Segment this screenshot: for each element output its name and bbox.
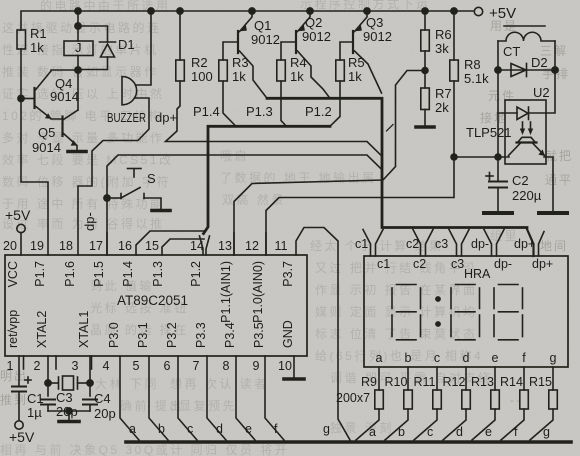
svg-text:R10: R10	[385, 375, 408, 389]
svg-text:dp-: dp-	[82, 212, 97, 231]
transistor Q2	[295, 31, 297, 53]
resistor R15 chain	[552, 367, 554, 390]
svg-text:P1.1(AIN1): P1.1(AIN1)	[219, 261, 233, 323]
svg-text:200x7: 200x7	[336, 391, 370, 405]
wire R8 to TLP node	[453, 81, 455, 157]
wire bus exit to pin 15	[162, 239, 204, 255]
svg-text:P1.4: P1.4	[193, 104, 220, 119]
IC top pin names rotated	[6, 261, 295, 323]
transistor Q5	[61, 117, 63, 137]
svg-text:5.1k: 5.1k	[464, 71, 489, 86]
diode D2	[498, 69, 555, 71]
resistor R10 chain	[407, 367, 409, 390]
svg-text:18: 18	[59, 239, 73, 253]
svg-text:20p: 20p	[56, 404, 78, 419]
pin13 tick	[233, 233, 235, 255]
relay J	[64, 41, 93, 56]
svg-text:c3: c3	[435, 237, 448, 251]
scan artifact dash	[387, 125, 394, 132]
node rail-R6	[422, 8, 428, 14]
svg-text:通平: 通平	[545, 173, 573, 187]
svg-text:P1.3: P1.3	[246, 104, 273, 119]
svg-text:哦启: 哦启	[220, 149, 249, 163]
svg-text:P1.2: P1.2	[305, 104, 332, 119]
wire Q4 collector	[36, 70, 78, 90]
svg-text:13: 13	[218, 239, 232, 253]
node rail-relay	[75, 8, 81, 14]
node relay-D1 bottom	[75, 67, 81, 73]
svg-text:C3: C3	[56, 390, 73, 405]
svg-text:100: 100	[191, 69, 213, 84]
ground R7	[416, 125, 434, 129]
svg-text:C2: C2	[512, 173, 529, 188]
svg-text:a: a	[376, 351, 383, 365]
svg-text:R4: R4	[290, 55, 307, 70]
svg-text:220µ: 220µ	[512, 188, 542, 203]
resistor R4	[277, 60, 286, 81]
wire P3.7 pin11 to g	[296, 228, 350, 441]
node R6-R7 divider	[422, 68, 428, 74]
svg-text:4: 4	[103, 359, 110, 373]
svg-text:TLP521: TLP521	[466, 125, 512, 140]
node R1-Q4 base	[18, 95, 24, 101]
wire divider to AIN1 (P1.1 pin13)	[234, 71, 425, 256]
IC U1 AT89C2051 box	[5, 255, 307, 356]
svg-text:P1.6: P1.6	[63, 261, 77, 287]
wire P3.4 to e	[236, 356, 255, 440]
7seg digit 1	[397, 284, 417, 286]
U2 phototransistor	[517, 141, 537, 143]
svg-text:P3.1: P3.1	[136, 322, 150, 348]
svg-text:a: a	[369, 425, 376, 439]
svg-text:20p: 20p	[94, 406, 116, 421]
svg-text:1µ: 1µ	[27, 405, 42, 420]
svg-text:R14: R14	[500, 375, 523, 389]
wire D1 top branch	[78, 26, 108, 42]
svg-text:3: 3	[72, 359, 79, 373]
svg-text:9: 9	[253, 359, 260, 373]
svg-text:R8: R8	[464, 57, 481, 72]
svg-text:P1.0(AIN0): P1.0(AIN0)	[251, 261, 265, 323]
transistor Q4	[33, 88, 35, 108]
svg-text:P3.4: P3.4	[223, 322, 237, 348]
wire top +5V rail	[21, 11, 474, 30]
svg-text:14: 14	[190, 239, 204, 253]
buzzer body	[122, 77, 137, 105]
wire P3.2 to c	[178, 356, 197, 440]
node rail-Q2	[307, 8, 313, 14]
U2 light arrows	[522, 122, 524, 132]
colon dot upper	[435, 296, 441, 302]
svg-text:ret/vpp: ret/vpp	[6, 310, 20, 348]
svg-text:16: 16	[118, 239, 132, 253]
svg-text:17: 17	[89, 239, 103, 253]
ground switch	[152, 209, 170, 213]
svg-text:Q1: Q1	[254, 18, 271, 33]
svg-text:R15: R15	[529, 375, 552, 389]
7seg digit 2	[456, 284, 476, 286]
node XTAL1	[87, 380, 93, 386]
svg-text:3显复预先: 3显复预先	[170, 399, 237, 413]
wire R6 to R7	[424, 51, 426, 88]
svg-text:P1.7: P1.7	[33, 261, 47, 287]
svg-text:1k: 1k	[232, 69, 246, 84]
wire P3.0 to a	[120, 356, 139, 440]
svg-text:2: 2	[34, 359, 41, 373]
svg-text:U2: U2	[533, 85, 550, 100]
display funnel c2	[413, 230, 421, 257]
svg-text:标志 位清 了告 束莫状态: 标志 位清 了告 束莫状态	[315, 326, 478, 341]
+5V terminal VCC	[17, 224, 25, 232]
resistor R5	[336, 60, 345, 81]
wire P3.5 to f	[265, 356, 284, 440]
svg-text:GND: GND	[281, 320, 295, 348]
svg-text:2k: 2k	[435, 100, 449, 115]
display segment names a-g	[376, 351, 557, 365]
wire U2 emitter to ground	[544, 157, 553, 211]
node switch-P1.5	[104, 195, 110, 201]
node rail-R2	[177, 8, 183, 14]
wire bus exit to pin 16	[136, 231, 205, 255]
svg-text:9012: 9012	[363, 29, 392, 44]
svg-text:R9: R9	[361, 375, 377, 389]
svg-text:dp-: dp-	[471, 237, 489, 251]
svg-text:f: f	[514, 425, 518, 439]
svg-text:11: 11	[275, 239, 288, 253]
svg-text:调谐 即可 平需 自对支绕: 调谐 即可 平需 自对支绕	[330, 371, 493, 385]
ground crystal	[59, 420, 79, 424]
CT coil	[498, 32, 555, 41]
node rail-R8	[451, 8, 457, 14]
svg-text:BUZZER: BUZZER	[107, 110, 146, 125]
wire Q3 base to R5	[340, 42, 353, 60]
svg-text:1k: 1k	[290, 69, 304, 84]
7seg digit 3	[499, 284, 519, 286]
svg-text:VCC: VCC	[6, 261, 20, 287]
wire R3 to bus	[223, 81, 236, 126]
svg-text:+5V: +5V	[5, 207, 31, 223]
display HRA box	[364, 256, 568, 367]
node R8-TLP	[451, 154, 457, 160]
CT core line	[504, 25, 545, 27]
resistor R12 chain	[465, 367, 467, 390]
+5V terminal C1	[15, 421, 23, 429]
pin2 wire XTAL2	[47, 356, 49, 396]
svg-text:20: 20	[3, 239, 17, 253]
svg-text:元件: 元件	[488, 89, 516, 103]
svg-text:c: c	[434, 351, 440, 365]
svg-text:dp+: dp+	[532, 257, 553, 271]
svg-text:10: 10	[278, 359, 292, 373]
svg-text:P1.5: P1.5	[92, 261, 106, 287]
svg-text:HRA: HRA	[464, 267, 491, 281]
svg-text:就把: 就把	[545, 149, 573, 163]
wire R1 bottom to P1.7	[21, 49, 48, 255]
resistor R3	[219, 60, 228, 81]
svg-text:R6: R6	[435, 27, 452, 42]
svg-text:P3.0: P3.0	[107, 322, 121, 348]
resistor R14 chain	[523, 367, 525, 390]
svg-text:g: g	[323, 422, 330, 436]
resistor R7	[421, 88, 430, 110]
pin10 GND stub	[293, 356, 295, 377]
resistor R13 chain	[494, 367, 496, 390]
ground U2	[539, 211, 567, 215]
wire relay bottom to Q5 collector	[77, 56, 79, 111]
capacitor C1	[12, 386, 26, 388]
svg-text:g: g	[550, 351, 557, 365]
wire P3.1 to b	[149, 356, 168, 440]
ground C2	[484, 211, 512, 215]
optocoupler U2 box	[505, 100, 546, 164]
wire Q1 base to R3	[223, 42, 238, 60]
node D2 right	[552, 67, 558, 73]
wire R4 to bus	[281, 81, 287, 126]
svg-text:R2: R2	[191, 55, 208, 70]
svg-text:R3: R3	[232, 55, 249, 70]
svg-text:C1: C1	[27, 391, 44, 406]
svg-text:C4: C4	[94, 391, 111, 406]
node rail-buzzer	[148, 8, 154, 14]
svg-text:15: 15	[145, 239, 159, 253]
svg-text:d: d	[463, 351, 470, 365]
pin3 wire XTAL1	[89, 356, 91, 396]
wire TLP node to AIN0 (P1.0 pin12)	[266, 157, 454, 255]
wire buzzer minus to P1.6	[78, 98, 149, 255]
svg-text:推到: 推到	[0, 393, 28, 407]
pin17 tick	[106, 233, 108, 255]
wire P1.5 dp- net	[107, 155, 381, 255]
svg-text:给(65行列)也 是月 相称4: 给(65行列)也 是月 相称4	[315, 349, 483, 363]
svg-text:c3: c3	[451, 257, 464, 271]
svg-text:b: b	[405, 351, 412, 365]
ground Q5 emitter	[68, 150, 86, 154]
svg-text:b: b	[398, 425, 405, 439]
pin1 wire C1	[18, 356, 20, 386]
svg-text:c: c	[427, 425, 433, 439]
svg-text:c2: c2	[406, 237, 419, 251]
svg-text:R1: R1	[30, 26, 47, 41]
svg-text:dp-: dp-	[494, 257, 512, 271]
svg-text:XTAL2: XTAL2	[35, 311, 49, 348]
node D2 left	[495, 67, 501, 73]
wire R5 to bus2 end	[330, 81, 340, 126]
svg-text:dp+: dp+	[514, 237, 535, 251]
svg-text:R5: R5	[348, 55, 365, 70]
svg-text:R11: R11	[414, 375, 436, 389]
wire TLP node to U2	[454, 156, 509, 158]
wire +5V to VCC pin20	[20, 233, 22, 256]
colon dot lower	[435, 321, 441, 327]
wire D1 bottom	[78, 57, 108, 70]
svg-text:6: 6	[164, 359, 171, 373]
svg-text:d: d	[216, 422, 223, 436]
wire caps to ground	[48, 410, 90, 412]
switch S	[107, 197, 121, 199]
svg-text:P3.7: P3.7	[281, 261, 295, 287]
segment data bus (thick bottom)	[126, 440, 571, 444]
wire relay branch	[77, 11, 79, 41]
wire R7 to ground	[424, 110, 426, 126]
capacitor C2	[497, 157, 499, 181]
display funnel c1	[363, 230, 371, 257]
node C2	[495, 154, 501, 160]
svg-text:f: f	[522, 351, 526, 365]
node rail-Q3	[364, 8, 370, 14]
ground GND pin	[284, 377, 304, 381]
pin 14 funnel	[200, 236, 204, 255]
svg-text:P3.2: P3.2	[165, 322, 179, 348]
svg-text:R13: R13	[471, 375, 494, 389]
svg-text:+5V: +5V	[489, 5, 516, 22]
svg-text:b: b	[158, 422, 165, 436]
pin12 tick	[265, 233, 267, 255]
svg-text:S: S	[147, 171, 156, 186]
svg-text:19: 19	[30, 239, 44, 253]
svg-text:e: e	[485, 425, 492, 439]
svg-text:e: e	[245, 422, 252, 436]
svg-text:12: 12	[245, 239, 259, 253]
bus entry names a-g (display side)	[369, 425, 550, 439]
svg-text:D1: D1	[118, 37, 135, 52]
transistor Q1	[237, 31, 239, 53]
svg-text:1: 1	[7, 359, 14, 373]
svg-text:f: f	[274, 422, 278, 436]
IC bottom pin names rotated	[6, 310, 295, 348]
svg-text:+5V: +5V	[9, 429, 35, 445]
node relay-D1 top	[75, 23, 81, 29]
resistor R9 chain	[378, 367, 380, 390]
wire switch to ground	[144, 198, 161, 209]
svg-text:D2: D2	[531, 55, 548, 70]
pin numbers bottom row	[7, 359, 292, 373]
svg-text:9014: 9014	[50, 89, 79, 104]
bus c1-c2-c3-dp (thick)	[267, 98, 527, 227]
display funnel dp-	[484, 230, 492, 257]
svg-text:c2: c2	[413, 257, 426, 271]
capacitor C4	[83, 399, 97, 401]
pin cell ticks bottom row	[23, 356, 25, 369]
resistor R8	[453, 11, 455, 60]
svg-text:1k: 1k	[348, 69, 362, 84]
wire R2 to dp+ bus entry	[166, 81, 382, 155]
CT left lead	[497, 41, 499, 157]
svg-text:Q5: Q5	[38, 125, 55, 140]
svg-text:明出: 明出	[0, 369, 28, 383]
svg-text:a: a	[129, 422, 136, 436]
transistor Q3	[352, 31, 354, 53]
svg-text:P3.3: P3.3	[194, 322, 208, 348]
bus entry names a-f (MCU side)	[129, 422, 278, 436]
svg-text:R7: R7	[435, 86, 452, 101]
svg-text:XTAL1: XTAL1	[77, 311, 91, 348]
crystal Y1	[48, 382, 58, 384]
svg-text:g: g	[543, 425, 550, 439]
svg-text:P3.5: P3.5	[252, 322, 266, 348]
wire P3.3 to d	[207, 356, 226, 440]
svg-text:3k: 3k	[435, 41, 449, 56]
wire Q2 base to R4	[281, 42, 296, 60]
svg-text:9012: 9012	[302, 29, 331, 44]
resistor R2	[179, 11, 181, 60]
svg-text:想再 次认 读者: 想再 次认 读者	[170, 376, 269, 391]
svg-text:Q3: Q3	[366, 15, 383, 30]
svg-text:dp+: dp+	[155, 110, 177, 125]
svg-text:CT: CT	[503, 44, 520, 59]
svg-text:e: e	[492, 351, 499, 365]
svg-text:c: c	[187, 422, 193, 436]
node rail-Q1	[249, 8, 255, 14]
svg-text:5: 5	[133, 359, 140, 373]
svg-text:d: d	[456, 425, 463, 439]
svg-text:地间: 地间	[540, 239, 568, 253]
pin numbers top row	[3, 239, 287, 253]
resistor R1	[17, 30, 26, 49]
display funnel c3	[449, 230, 457, 257]
svg-text:c1: c1	[355, 237, 368, 251]
svg-text:8: 8	[223, 359, 230, 373]
svg-text:相再 与前 决象Q5 30Q或计 同归 仅员 将开: 相再 与前 决象Q5 30Q或计 同归 仅员 将开	[0, 442, 289, 456]
svg-text:Q2: Q2	[305, 15, 322, 30]
svg-text:R12: R12	[443, 375, 466, 389]
bus P1.4-P1.2 (thick)	[204, 126, 331, 233]
svg-text:7: 7	[193, 359, 200, 373]
svg-text:c1: c1	[377, 257, 390, 271]
svg-text:P1.3: P1.3	[151, 261, 165, 287]
U2 LED	[498, 112, 517, 114]
node XTAL2	[45, 380, 51, 386]
resistor R11 chain	[436, 367, 438, 390]
svg-text:P1.4: P1.4	[121, 261, 135, 287]
resistor R6	[424, 11, 426, 30]
svg-text:9012: 9012	[251, 32, 280, 47]
diode D1	[100, 41, 116, 43]
capacitor C3	[41, 399, 55, 401]
+5V terminal top right	[474, 7, 482, 15]
wire buzzer plus to rail	[136, 11, 152, 85]
svg-text:P1.2: P1.2	[189, 261, 203, 287]
svg-text:J: J	[75, 40, 82, 55]
display funnel dp+	[527, 228, 534, 256]
svg-text:AT89C2051: AT89C2051	[117, 293, 188, 308]
svg-text:9014: 9014	[32, 140, 61, 155]
CT right lead	[546, 41, 555, 113]
svg-text:1k: 1k	[30, 40, 44, 55]
